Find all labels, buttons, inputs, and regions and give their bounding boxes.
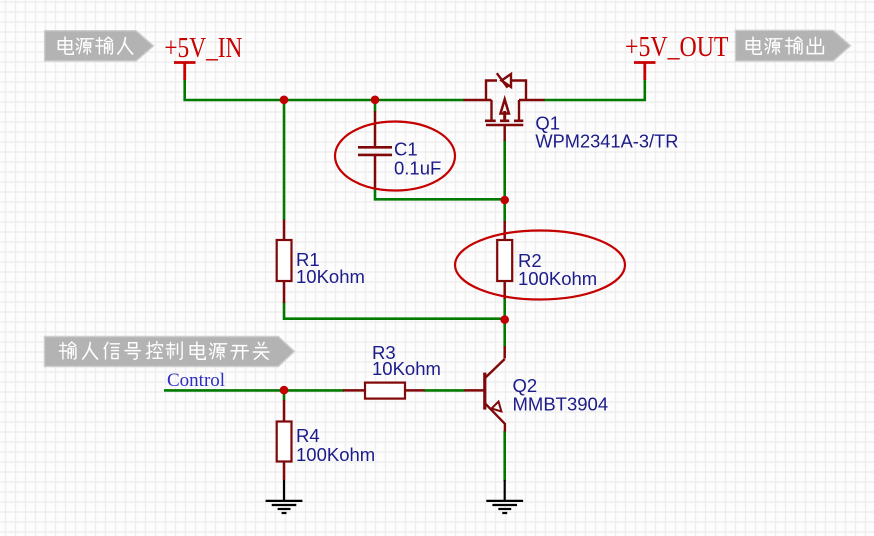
svg-text:MMBT3904: MMBT3904 [513, 393, 609, 414]
svg-text:Control: Control [167, 370, 225, 391]
svg-text:C1: C1 [394, 139, 418, 160]
svg-text:10Kohm: 10Kohm [296, 266, 365, 287]
svg-text:100Kohm: 100Kohm [518, 268, 597, 289]
svg-text:+5V_IN: +5V_IN [164, 33, 242, 64]
svg-text:100Kohm: 100Kohm [296, 444, 375, 465]
svg-text:WPM2341A-3/TR: WPM2341A-3/TR [535, 131, 678, 152]
svg-text:R4: R4 [296, 425, 320, 446]
svg-text:+5V_OUT: +5V_OUT [625, 32, 729, 63]
svg-text:10Kohm: 10Kohm [372, 358, 441, 379]
svg-text:0.1uF: 0.1uF [394, 158, 441, 179]
